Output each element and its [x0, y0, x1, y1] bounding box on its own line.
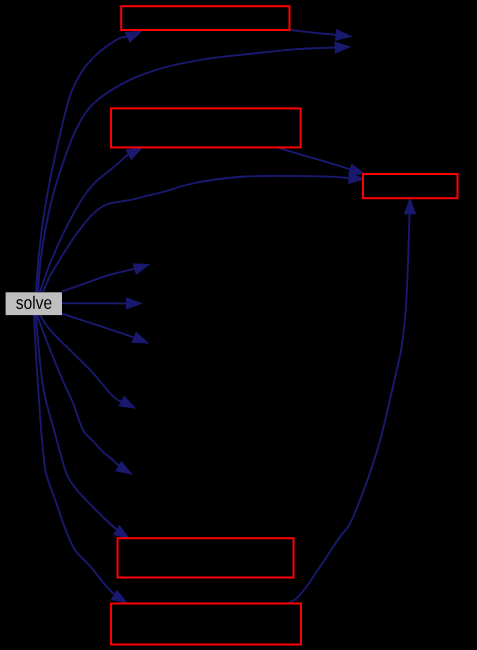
node bottom box 1 (red border, callee) — [118, 538, 294, 577]
edge M3 solve to node 3 — [62, 314, 148, 344]
edge U4 solve to right box — [43, 173, 364, 292]
edge D2 solve to bottom box 2 — [34, 315, 127, 603]
edge D1 solve to bottom box 1 — [36, 315, 129, 539]
edge M2 solve to node 2 — [62, 298, 142, 309]
edge M5 solve to node 5 — [37, 315, 132, 474]
edge U1 solve to top box — [36, 31, 141, 292]
edge M1 solve to node 1 — [62, 264, 149, 292]
node bottom box 2 (red border, callee) — [111, 604, 301, 645]
edge M4 solve to node 4 — [40, 315, 135, 408]
edge E2 second box to right box — [277, 148, 365, 175]
node second box (red border, callee) — [111, 108, 301, 147]
edge U3 solve to second box — [40, 148, 142, 292]
edge E1 top box to top right node — [290, 30, 352, 41]
edge E3 bottom box 2 to right box — [288, 199, 415, 604]
edge U2 solve to top right node — [38, 42, 350, 292]
node right box (red border, callee) — [363, 174, 458, 198]
node top box (red border, callee truncated) — [121, 6, 289, 30]
node solve (current function, grey fill) — [6, 292, 62, 315]
